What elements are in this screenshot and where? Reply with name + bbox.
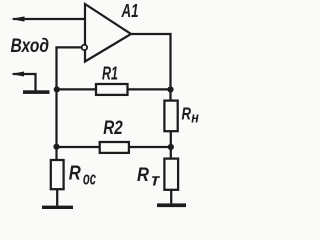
svg-text:R: R (137, 165, 149, 186)
input common arrow (13, 74, 36, 91)
wire left vertical node A to node B (55, 90, 57, 148)
wire R2 to node D (129, 146, 171, 148)
svg-text:R1: R1 (102, 62, 118, 83)
node B junction dot (53, 144, 59, 150)
arrowhead output left (11, 16, 25, 21)
resistor Rн (164, 101, 177, 132)
ground bar left (42, 206, 73, 209)
node A junction dot (54, 86, 60, 92)
svg-text:ос: ос (83, 168, 96, 188)
node C junction dot (167, 86, 173, 92)
wire node B to Rос (55, 147, 57, 160)
wire node B to R2 (57, 146, 100, 148)
inverting input bubble (82, 45, 87, 50)
ground bar right (157, 203, 186, 207)
resistor R2 (100, 142, 129, 153)
chassis ground bar (input) (23, 90, 50, 94)
wire R1 to node C (128, 88, 171, 90)
label Rт subscript (149, 170, 162, 190)
resistor R1 (96, 84, 128, 95)
wire Rос to ground (56, 189, 58, 205)
resistor Rос (51, 160, 64, 189)
svg-text:A1: A1 (121, 1, 139, 21)
svg-text:R2: R2 (103, 118, 123, 139)
wire node D to Rт (170, 147, 172, 159)
wire op-amp output (131, 34, 171, 101)
wire input to bubble (57, 47, 82, 89)
op-amp A1 (85, 4, 131, 62)
svg-text:R: R (69, 162, 81, 184)
wire output to left arrow (top) (13, 18, 85, 20)
arrowhead input common (11, 72, 24, 77)
resistor Rт (164, 159, 178, 190)
svg-text:R: R (182, 104, 192, 124)
wire Rн to node D (170, 131, 172, 147)
wire node A to R1 (57, 88, 97, 90)
svg-text:н: н (191, 110, 199, 127)
svg-text:Вход: Вход (11, 36, 50, 57)
svg-text:т: т (149, 170, 162, 190)
node D junction dot (168, 144, 174, 150)
wire Rт to ground (170, 190, 172, 204)
